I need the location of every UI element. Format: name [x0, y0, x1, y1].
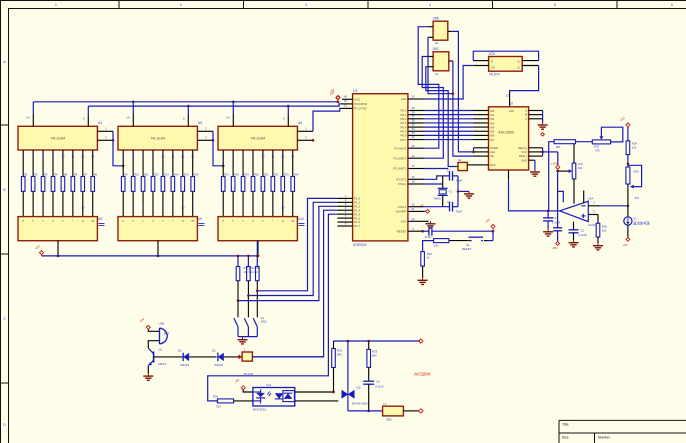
U7 pins: [473, 61, 538, 66]
svg-text:R20: R20: [213, 395, 219, 399]
wire: [113, 131, 124, 167]
U1 pin P3.0: [342, 99, 353, 104]
svg-text:S2: S2: [458, 158, 462, 162]
svg-text:JDQ: JDQ: [261, 320, 268, 324]
svg-text:U10: U10: [298, 217, 304, 221]
terminal (AC bottom): [419, 409, 423, 413]
ground (ABC): [538, 123, 548, 137]
svg-text:13: 13: [411, 164, 415, 168]
wire REF tie: [541, 148, 544, 156]
svg-text:11: 11: [344, 104, 347, 108]
wire: [627, 127, 629, 141]
svg-text:P3.5/T1: P3.5/T1: [396, 178, 407, 182]
U5B pins: [428, 27, 452, 38]
wire: [368, 341, 370, 381]
wire P1.0: [257, 198, 337, 290]
shift register U5 74LS164: [118, 121, 202, 150]
wire AC top rail: [334, 340, 421, 343]
wire P1.3: [252, 210, 337, 357]
wire: [87, 106, 89, 115]
title block frame: [559, 420, 686, 443]
wire: [247, 281, 250, 318]
wire V+ pin: [558, 171, 564, 202]
resistor array R1-R8: [21, 173, 97, 192]
wire ctrl2: [422, 57, 443, 159]
wire: [247, 255, 250, 267]
svg-text:-15V: -15V: [552, 246, 558, 250]
svg-text:12: 12: [411, 154, 415, 158]
svg-text:R20: R20: [254, 173, 259, 177]
svg-text:R2: R2: [34, 173, 38, 177]
gate U5B: [433, 16, 448, 45]
svg-text:P3.2/INT0: P3.2/INT0: [393, 156, 406, 160]
wire ctrl1: [418, 27, 439, 149]
wire inv node: [547, 210, 560, 213]
svg-text:74LS164: 74LS164: [50, 137, 65, 141]
svg-text:AC220V: AC220V: [414, 371, 431, 376]
svg-text:R22: R22: [274, 173, 279, 177]
capacitor C6: [363, 380, 384, 389]
wire xtal2: [424, 183, 443, 185]
wire ctrl4: [428, 37, 474, 156]
svg-text:VR3: VR3: [633, 170, 639, 174]
U5 pin 14 (VCC): [126, 113, 133, 126]
diode D2: [178, 348, 189, 367]
potentiometer VR3: [626, 165, 642, 200]
svg-text:U1: U1: [353, 89, 358, 93]
svg-text:VSS: VSS: [401, 220, 407, 224]
svg-text:VCC: VCC: [521, 150, 527, 154]
svg-text:S9013: S9013: [158, 362, 167, 366]
wire feedback: [549, 142, 554, 211]
svg-text:R18: R18: [234, 173, 239, 177]
capacitor C1 (reset): [425, 222, 432, 239]
ADC pins REF/VCC: [529, 148, 543, 156]
U3 input pins: [588, 201, 599, 215]
wire inv to divider: [600, 205, 630, 208]
svg-text:P1.7: P1.7: [354, 224, 360, 228]
svg-text:40: 40: [344, 95, 348, 99]
svg-text:R19: R19: [244, 173, 249, 177]
svg-text:30: 30: [411, 95, 415, 99]
7-seg display U9: [118, 217, 205, 241]
svg-text:R3: R3: [44, 173, 48, 177]
wire REF to +15V: [543, 152, 558, 165]
flip-flop U7 74LS74: [489, 52, 523, 77]
wire noninv down: [597, 215, 599, 224]
svg-text:RESET: RESET: [397, 229, 407, 233]
resistor R24: [626, 141, 637, 155]
svg-text:IN2: IN2: [490, 117, 495, 121]
MCU U1 AT89S52: [353, 89, 408, 247]
shift register U4 74LS164: [18, 121, 102, 150]
resistor R23: [367, 349, 378, 367]
svg-text:R16: R16: [194, 173, 199, 177]
crystal Y1: [434, 176, 452, 207]
svg-text:R5: R5: [64, 173, 68, 177]
wire: [189, 356, 217, 358]
svg-text:C2: C2: [447, 169, 451, 173]
svg-text:04: 04: [435, 41, 439, 45]
svg-text:10: 10: [506, 94, 510, 98]
svg-text:R11: R11: [144, 173, 149, 177]
svg-text:直流信号源: 直流信号源: [633, 221, 650, 226]
U6 pin 14 (VCC): [226, 113, 233, 126]
diode D1: [212, 348, 224, 367]
wire: [132, 101, 135, 114]
relay contacts K1: [234, 316, 267, 337]
ADC pins A,B,C: [529, 111, 543, 119]
svg-text:IN3: IN3: [490, 121, 495, 125]
svg-text:R15: R15: [184, 173, 189, 177]
U10 common pin: [257, 241, 260, 257]
svg-text:10: 10: [261, 155, 265, 159]
resistor R25: [554, 140, 575, 149]
svg-text:R7: R7: [84, 173, 88, 177]
ADC CLK pin: [506, 92, 510, 107]
svg-text:0.01uF: 0.01uF: [375, 384, 384, 388]
U4 output pins: [22, 150, 94, 217]
resistor R22: [332, 349, 343, 368]
svg-text:IN4004: IN4004: [180, 363, 189, 367]
wire P1.2: [238, 206, 337, 300]
ADC pin GND: [529, 160, 535, 169]
border ruler ticks: [1, 1, 618, 384]
wire INT1 link: [424, 168, 449, 170]
resistor array R17-R24: [221, 173, 299, 192]
wire: [295, 391, 335, 394]
wire ABC tie: [542, 111, 544, 123]
ADC U2 ADC0809: [489, 101, 529, 170]
svg-text:680: 680: [337, 353, 342, 357]
svg-text:R6: R6: [74, 173, 78, 177]
svg-text:30pF: 30pF: [456, 210, 463, 214]
U4 pins 1,2 (A,B): [97, 126, 114, 141]
ground (relay): [238, 337, 248, 344]
svg-text:IN7: IN7: [490, 138, 495, 142]
svg-text:R12: R12: [154, 173, 159, 177]
wire VR1 bottom: [573, 179, 575, 204]
svg-text:Title: Title: [562, 423, 569, 427]
U5 output pins: [122, 150, 194, 217]
wire offset pin: [583, 191, 585, 204]
wire xtal rail: [457, 176, 469, 207]
svg-text:IN4004: IN4004: [214, 363, 223, 367]
wire: [627, 225, 629, 237]
wire: [232, 101, 235, 114]
svg-text:B: B: [525, 113, 527, 117]
svg-text:1: 1: [55, 3, 57, 7]
wire: [313, 108, 342, 131]
resistor R19: [256, 267, 260, 281]
svg-text:D2: D2: [178, 348, 182, 352]
wire P1.1: [248, 202, 337, 295]
wire: [333, 341, 335, 392]
capacitor C3: [447, 200, 463, 214]
svg-text:GND: GND: [521, 158, 527, 162]
ground (Q1): [143, 374, 153, 381]
svg-text:Q1: Q1: [159, 348, 163, 352]
svg-text:C5: C5: [580, 228, 584, 232]
wire: [147, 366, 149, 374]
svg-text:2: 2: [180, 3, 182, 7]
svg-text:20: 20: [411, 217, 415, 221]
ground (C4): [543, 229, 553, 236]
optocoupler U11 MOC3061: [253, 383, 295, 412]
wire xtal top: [424, 176, 459, 179]
svg-text:U9: U9: [198, 217, 202, 221]
svg-text:C3: C3: [447, 200, 451, 204]
svg-text:11: 11: [71, 155, 74, 159]
wire START-ALE junction: [472, 148, 475, 153]
svg-text:IN4: IN4: [490, 125, 495, 129]
svg-text:6: 6: [671, 3, 673, 7]
svg-text:AT89S52: AT89S52: [353, 243, 367, 247]
wire: [243, 390, 253, 392]
svg-text:74LS74: 74LS74: [489, 73, 500, 77]
svg-text:U8: U8: [98, 217, 102, 221]
svg-text:dp: dp: [291, 219, 295, 223]
svg-text:3: 3: [305, 3, 307, 7]
svg-text:BTA41-600V: BTA41-600V: [352, 401, 368, 405]
power -15V: [552, 242, 560, 250]
svg-text:47k: 47k: [635, 196, 640, 200]
U1 pin P3.1: [342, 104, 353, 109]
svg-text:OE: OE: [490, 154, 494, 158]
wire: [367, 384, 370, 412]
resistor R9: [434, 239, 449, 248]
svg-text:10k 10k 10k: 10k 10k 10k: [244, 270, 259, 274]
wire AC bottom rail: [348, 410, 383, 412]
wire P0-ADC data lines: [424, 111, 474, 140]
U4 pin 14 (VCC): [26, 113, 33, 126]
wire: [422, 266, 424, 278]
svg-text:ADC0809: ADC0809: [498, 131, 514, 135]
wire: [295, 400, 339, 402]
svg-text:CLK: CLK: [509, 109, 514, 113]
svg-text:32: 32: [411, 135, 415, 139]
wire display +5V rail: [42, 255, 258, 256]
wire reset node: [421, 230, 429, 233]
U9 common pin: [157, 241, 160, 257]
svg-text:P3.1/TXD: P3.1/TXD: [354, 107, 367, 111]
svg-text:R24: R24: [294, 173, 299, 177]
svg-text:U5C: U5C: [433, 47, 440, 51]
svg-text:30pF: 30pF: [456, 179, 463, 183]
svg-text:C1: C1: [427, 222, 431, 226]
terminal (AC top): [419, 339, 423, 343]
svg-text:C4: C4: [553, 216, 557, 220]
label AC220V: [414, 371, 431, 376]
wire: [597, 237, 599, 243]
wire: [403, 410, 418, 412]
power +5V (bus): [329, 90, 340, 103]
svg-text:R8: R8: [94, 173, 98, 177]
wire: [287, 105, 290, 116]
svg-text:R9: R9: [124, 173, 128, 177]
power +5V (R24): [619, 116, 630, 127]
wire VR1 top: [573, 140, 576, 163]
capacitor C4: [543, 211, 561, 229]
svg-text:11: 11: [171, 155, 174, 159]
ADC OUT pin: [508, 170, 510, 179]
svg-text:200: 200: [434, 243, 439, 247]
ground (xtal): [464, 191, 474, 198]
wire: [148, 341, 159, 348]
svg-text:R17: R17: [224, 173, 229, 177]
svg-text:13: 13: [191, 155, 195, 159]
resistor array R9-R16: [121, 173, 199, 192]
svg-text:14: 14: [126, 116, 130, 120]
svg-text:P2.4/A12: P2.4/A12: [394, 146, 406, 150]
svg-text:EOC: EOC: [490, 163, 496, 167]
svg-text:XTAL2: XTAL2: [398, 182, 407, 186]
svg-text:+15V: +15V: [551, 161, 558, 165]
resistor R10: [421, 252, 433, 267]
ground (ADC): [530, 170, 540, 177]
svg-text:25: 25: [411, 144, 415, 148]
wire: [187, 105, 190, 116]
wire: [347, 399, 349, 411]
wire U7 Q to ADC CLK: [510, 66, 539, 93]
capacitor C2: [447, 169, 463, 183]
svg-text:15: 15: [411, 175, 415, 179]
svg-text:RESET: RESET: [462, 247, 472, 251]
wire reset top: [432, 230, 494, 233]
wire: [627, 155, 630, 167]
ground (reset): [418, 278, 428, 285]
svg-text:R14: R14: [174, 173, 179, 177]
svg-text:A: A: [525, 109, 527, 113]
power +5V (reset): [484, 218, 495, 231]
svg-text:12: 12: [281, 155, 285, 159]
resistor R20: [213, 395, 234, 409]
power +5V (buzzer): [139, 317, 151, 329]
svg-text:U5B: U5B: [433, 16, 439, 20]
svg-text:5: 5: [554, 3, 556, 7]
svg-text:47k: 47k: [595, 149, 600, 153]
wire ADC IN2 to opamp: [509, 179, 549, 211]
svg-text:14: 14: [26, 116, 30, 120]
U6 pin 9 (CLR): [283, 116, 288, 127]
svg-text:D1: D1: [212, 348, 216, 352]
op-amp U3 CA3140: [560, 196, 599, 227]
svg-text:R17 R18 R19: R17 R18 R19: [244, 266, 260, 270]
wire CLK bus: [33, 101, 338, 103]
svg-text:R21: R21: [264, 173, 269, 177]
svg-text:R23: R23: [284, 173, 289, 177]
svg-text:dp: dp: [91, 219, 95, 223]
svg-text:0.01uF: 0.01uF: [552, 221, 561, 225]
svg-text:20k: 20k: [578, 166, 583, 170]
U4 pin 9 (CLR): [83, 116, 88, 127]
svg-text:U11: U11: [266, 383, 272, 387]
7-seg display U8: [18, 217, 105, 241]
U1 right pins: [408, 95, 424, 232]
svg-text:U4: U4: [98, 121, 102, 125]
svg-text:IN1: IN1: [490, 113, 495, 117]
U5C pins: [428, 57, 453, 67]
triac Q2: [342, 341, 368, 405]
wire: [256, 241, 259, 267]
svg-text:Q2: Q2: [357, 386, 361, 390]
wire: [237, 255, 240, 267]
resistor R17: [236, 267, 240, 281]
svg-text:4MHz: 4MHz: [434, 197, 441, 201]
svg-text:Size: Size: [562, 436, 569, 440]
potentiometer VR2: [592, 127, 623, 152]
wire: [32, 102, 34, 114]
wire ctrl5: [452, 31, 474, 151]
inductor L1: [383, 402, 404, 422]
svg-text:VCC: VCC: [354, 98, 360, 102]
svg-text:04: 04: [435, 72, 439, 76]
wire: [423, 241, 434, 252]
svg-text:dp: dp: [191, 219, 195, 223]
svg-text:10: 10: [161, 155, 165, 159]
svg-text:U6: U6: [298, 121, 302, 125]
ground (R26): [593, 243, 603, 250]
svg-text:START: START: [490, 146, 499, 150]
gate U5C: [433, 47, 449, 76]
U6 pins 1,2 (A,B): [297, 126, 314, 141]
svg-text:EA/VPP: EA/VPP: [396, 210, 407, 214]
svg-text:680: 680: [372, 353, 377, 357]
svg-text:ALE: ALE: [401, 97, 407, 101]
svg-text:IN0: IN0: [490, 109, 495, 113]
resistor R26: [596, 223, 607, 237]
svg-text:P3.3/INT1: P3.3/INT1: [393, 167, 406, 171]
svg-text:V1: V1: [633, 217, 637, 221]
svg-text:R10: R10: [134, 173, 139, 177]
wire: [449, 240, 468, 242]
svg-text:330: 330: [216, 404, 221, 408]
wire P1.4: [208, 214, 338, 401]
source V1: [624, 217, 651, 226]
svg-text:14: 14: [226, 116, 230, 120]
svg-text:10: 10: [81, 205, 85, 209]
svg-text:Y1: Y1: [449, 190, 453, 194]
wire U7 feedback: [473, 51, 538, 60]
wire: [148, 330, 159, 332]
svg-text:IN6: IN6: [490, 134, 495, 138]
svg-text:13: 13: [91, 155, 95, 159]
svg-text:C: C: [525, 117, 527, 121]
power +5V (VCC pin): [329, 88, 340, 100]
svg-text:12: 12: [81, 155, 85, 159]
U5 pin 9 (CLR): [183, 116, 188, 127]
svg-text:74LS164: 74LS164: [150, 137, 165, 141]
svg-text:12: 12: [181, 155, 185, 159]
capacitor C5: [569, 222, 588, 241]
wire: [256, 281, 259, 318]
svg-text:19: 19: [411, 202, 415, 206]
svg-text:10uF: 10uF: [425, 235, 432, 239]
power +15V (VR1): [551, 161, 560, 169]
wire: [492, 231, 494, 240]
U8 common pin: [57, 241, 60, 257]
svg-text:680: 680: [556, 145, 561, 149]
svg-text:31: 31: [411, 207, 415, 211]
wire: [213, 131, 225, 167]
svg-text:JRQ: JRQ: [386, 418, 392, 422]
wire xtal bottom: [424, 206, 459, 208]
U5 pins 1,2 (A,B): [197, 126, 214, 141]
shift register U6 74LS164: [218, 121, 302, 150]
svg-text:R4: R4: [54, 173, 58, 177]
svg-text:P0.7: P0.7: [400, 138, 406, 142]
svg-text:11: 11: [271, 155, 274, 159]
